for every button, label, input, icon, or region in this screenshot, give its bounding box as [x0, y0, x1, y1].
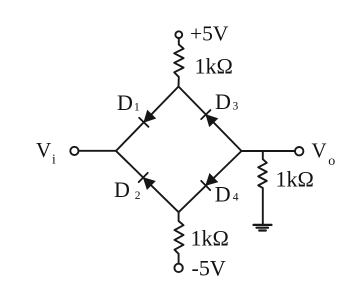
- svg-text:1: 1: [134, 102, 140, 114]
- svg-text:D: D: [114, 177, 130, 202]
- svg-text:-5V: -5V: [192, 256, 226, 281]
- svg-text:D: D: [215, 89, 231, 114]
- svg-text:3: 3: [233, 101, 239, 113]
- svg-text:D: D: [215, 182, 231, 207]
- svg-text:D: D: [117, 90, 133, 115]
- svg-text:1kΩ: 1kΩ: [195, 54, 233, 79]
- svg-text:4: 4: [233, 191, 239, 203]
- svg-text:i: i: [52, 152, 56, 167]
- svg-text:2: 2: [135, 190, 141, 202]
- svg-text:1kΩ: 1kΩ: [191, 226, 229, 251]
- svg-text:+5V: +5V: [190, 22, 229, 46]
- svg-text:V: V: [36, 138, 51, 162]
- svg-text:o: o: [328, 154, 335, 169]
- svg-text:V: V: [312, 138, 327, 162]
- svg-text:1kΩ: 1kΩ: [276, 166, 314, 191]
